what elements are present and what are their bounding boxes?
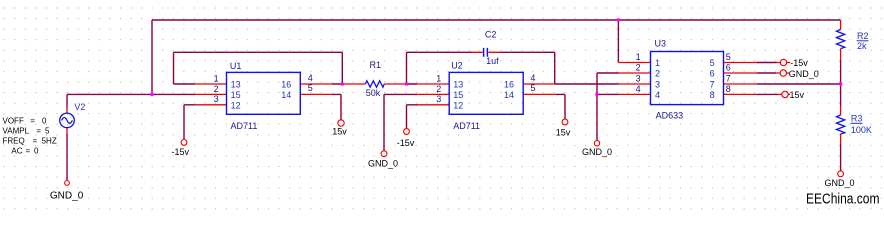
terminal -15v below U2 [397,129,415,148]
svg-text:GND_0: GND_0 [789,69,819,79]
svg-text:GND_0: GND_0 [582,147,612,157]
svg-text:AD711: AD711 [453,121,480,131]
svg-text:1: 1 [636,52,641,62]
terminal GND_0 below U2 [368,151,398,169]
svg-text:C2: C2 [485,30,497,40]
wire U1 feedback loop [174,52,343,84]
svg-text:U2: U2 [451,60,463,70]
svg-text:R3: R3 [851,114,863,124]
svg-text:7: 7 [710,80,715,90]
svg-text:4: 4 [530,73,535,83]
svg-text:-15v: -15v [790,58,808,68]
svg-text:U3: U3 [655,39,667,49]
svg-text:AD711: AD711 [231,121,258,131]
wire U2 pin2 to GND_0 [384,94,417,150]
port GND_0 at U3 pin6 [776,69,819,79]
resistor R1 [365,81,384,87]
port -15v at U3 pin5 [777,58,809,68]
svg-text:15v: 15v [556,128,571,138]
svg-text:5: 5 [308,83,313,93]
watermark EEChina.com [806,190,880,207]
svg-text:1: 1 [436,73,441,83]
svg-text:=: = [36,126,41,135]
svg-text:V2: V2 [74,102,85,112]
svg-text:R2: R2 [857,31,869,41]
multiplier U3 box [651,52,724,105]
pin stubs U1 (red) [195,84,332,105]
wire U3 pin2/pin4 to GND_0 [597,73,619,140]
svg-text:GND_0: GND_0 [368,159,398,169]
svg-text:50k: 50k [366,88,381,98]
svg-text:5: 5 [710,58,715,68]
resistor R3 labels [851,114,872,136]
capacitor C2 labels [485,30,499,66]
svg-text:15v: 15v [332,126,347,136]
svg-text:5: 5 [45,126,50,135]
op-amp U1 pin names [231,80,292,111]
voltage source V2 parameters [3,116,57,155]
svg-text:U1: U1 [230,61,242,71]
svg-text:4: 4 [308,73,313,83]
terminal -15v below U1 [172,140,190,158]
svg-text:8: 8 [710,90,715,100]
voltage source V2 label [74,102,85,112]
op-amp U2 pin names [453,80,514,111]
op-amp U1 labels [230,61,257,131]
terminal 15v below U2 output [556,119,571,137]
svg-text:3: 3 [436,94,441,104]
svg-text:-15v: -15v [397,138,415,148]
svg-text:7: 7 [726,74,731,84]
svg-text:6: 6 [726,63,731,73]
op-amp U1 box [227,72,301,114]
svg-text:R1: R1 [370,60,382,70]
resistor R2 labels [857,31,869,51]
svg-text:2: 2 [436,84,441,94]
wire U2 pin3 to -15v [407,105,419,129]
wire V2 bottom to GND_0 [66,133,68,180]
svg-text:2k: 2k [857,41,867,51]
svg-text:6: 6 [710,69,715,79]
terminal 15v below U1 output [332,120,347,137]
pin stubs R1 R2 R3 C2 V2 (red) [67,20,841,144]
svg-text:2: 2 [214,84,219,94]
wire top net V2 to U3.1 and R2 [67,20,841,108]
svg-text:16: 16 [504,80,514,90]
svg-text:=: = [33,136,38,145]
svg-text:1: 1 [655,58,660,68]
svg-text:14: 14 [504,90,514,100]
svg-text:GND_0: GND_0 [50,191,84,202]
svg-text:15v: 15v [790,90,805,100]
wire U2 pin5 to 15v [556,94,565,119]
svg-text:0: 0 [42,116,47,125]
op-amp U2 box [449,72,523,114]
ground terminal below R3 [824,171,854,188]
svg-text:100K: 100K [851,125,872,135]
wire U1 pin5 to 15v [332,94,341,119]
ground terminal below V2 [50,181,84,202]
svg-text:=: = [26,146,31,155]
op-amp U2 labels [451,60,480,131]
pin stubs U3 (red) [618,63,756,95]
pin stubs U2 (red) [417,84,556,105]
wire U3 pin7 output to R2/R3 node [757,60,841,171]
svg-text:VAMPL: VAMPL [3,126,30,135]
svg-text:2: 2 [636,63,641,73]
svg-text:2: 2 [655,69,660,79]
svg-text:16: 16 [281,80,291,90]
svg-text:FREQ: FREQ [3,136,25,145]
op-amp U1 pin numbers [214,73,313,104]
svg-text:4: 4 [636,84,641,94]
multiplier U3 pin names [655,58,715,100]
svg-text:0: 0 [34,146,39,155]
resistor R3 [837,115,845,134]
svg-text:1uf: 1uf [486,56,499,66]
capacitor C2 [484,48,488,57]
svg-text:12: 12 [453,100,463,110]
svg-text:EEChina.com: EEChina.com [806,190,880,207]
svg-text:5: 5 [530,83,535,93]
svg-text:13: 13 [453,80,463,90]
svg-text:8: 8 [726,84,731,94]
svg-text:AD633: AD633 [656,110,684,120]
resistor R2 [837,30,845,49]
svg-text:12: 12 [231,100,241,110]
svg-text:3: 3 [655,80,660,90]
svg-text:14: 14 [281,90,291,100]
svg-text:15: 15 [453,90,463,100]
svg-text:=: = [30,116,35,125]
svg-text:VOFF: VOFF [3,116,24,125]
wire U3 pin5 pin6 pin8 to ports [757,63,779,95]
junction node dots [150,18,842,96]
resistor R1 labels [366,60,381,98]
multiplier U3 labels [655,39,684,121]
port 15v at U3 pin8 [778,90,804,100]
svg-text:5HZ: 5HZ [42,136,57,145]
svg-text:1: 1 [214,73,219,83]
svg-text:3: 3 [636,74,641,84]
svg-text:-15v: -15v [172,147,190,157]
voltage source V2 [60,113,75,128]
op-amp U2 pin numbers [436,73,535,104]
multiplier U3 pin numbers [636,52,731,94]
svg-text:GND_0: GND_0 [824,178,854,188]
wire U1 pin3 to -15v [184,105,195,140]
svg-text:15: 15 [231,90,241,100]
wire U1 output to R1 to U2 input, C2 loop [332,52,619,84]
terminal GND_0 below U3 [582,141,612,158]
svg-text:13: 13 [231,80,241,90]
svg-text:5: 5 [726,52,731,62]
svg-text:AC: AC [11,146,22,155]
svg-text:4: 4 [655,90,660,100]
svg-text:3: 3 [214,94,219,104]
